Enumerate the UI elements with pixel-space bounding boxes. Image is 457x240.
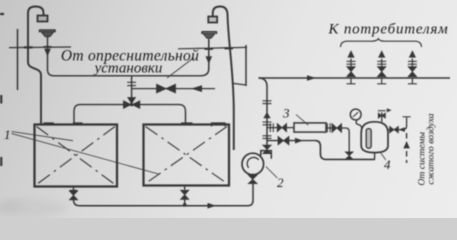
- label 2 leader: [266, 167, 278, 179]
- level gauge slot: [366, 129, 371, 149]
- funnel F1 top: [39, 30, 56, 32]
- consumer takeoff 1: [347, 50, 356, 84]
- tank 1 diagonals: [37, 127, 116, 185]
- valve before filter: [277, 123, 286, 131]
- funnel F1 bowl: [41, 32, 54, 37]
- border dash top-left: [0, 13, 4, 15]
- svg-text:К потребителям: К потребителям: [328, 22, 449, 38]
- tank bottom stub: [374, 153, 376, 160]
- ship side right foot: [233, 83, 246, 85]
- pump discharge riser: [259, 78, 268, 151]
- header right corner to F2: [201, 39, 209, 76]
- funnel F1 stem: [48, 37, 55, 76]
- tank 2: [144, 125, 230, 186]
- leader from caption to inlet: [167, 58, 194, 79]
- corner down after filter: [346, 128, 349, 152]
- edge artifact left lower: [0, 157, 2, 166]
- svg-text:установки: установки: [93, 61, 163, 77]
- air inlet connection: [388, 118, 407, 130]
- ship side right: [245, 45, 247, 86]
- valve tank2 outlet: [181, 190, 189, 199]
- distribution main: [259, 77, 451, 79]
- pressure tank T4: [361, 122, 388, 153]
- svg-text:сжатого воздуха: сжатого воздуха: [425, 113, 436, 184]
- flange tick at G1 stub: [44, 122, 55, 124]
- bypass corner down: [315, 141, 375, 160]
- flange ticks on tee drop: [127, 82, 136, 85]
- hatch on tank 2: [212, 123, 226, 127]
- deck tick on F1 stem: [44, 46, 52, 48]
- crossing tick at G1 pipe: [24, 46, 33, 48]
- inlet line from desalination unit: [132, 88, 215, 90]
- tank top fitting: [381, 112, 383, 122]
- flow arrow down F1: [44, 49, 51, 57]
- flow arrow up on riser: [263, 112, 270, 118]
- consumer takeoff 3: [408, 50, 417, 84]
- svg-text:2: 2: [277, 175, 284, 190]
- air inlet valve: [390, 126, 399, 133]
- flow arrow down F2: [206, 56, 213, 64]
- ship side left: [17, 29, 19, 90]
- svg-text:3: 3: [282, 106, 290, 121]
- flange tick at left riser: [73, 122, 83, 124]
- valve tank1 outlet: [69, 191, 77, 200]
- svg-text:4: 4: [384, 157, 391, 172]
- filter branch: [267, 127, 294, 129]
- tank top header: [80, 104, 179, 106]
- pipe jog G1 to tank 1: [28, 62, 41, 125]
- label 1 leaders: [12, 132, 159, 175]
- pump suction valve: [248, 175, 257, 184]
- header right corner: [179, 105, 186, 125]
- header left corner: [74, 105, 80, 125]
- pressure gauge: [350, 109, 361, 120]
- filter F3: [294, 123, 326, 132]
- tank 1: [35, 125, 118, 187]
- funnel F2 bowl: [203, 33, 215, 38]
- flow arrow up on air line: [403, 141, 410, 148]
- curve to bottom suction line: [74, 200, 80, 206]
- crossing tick at G2 pipe: [225, 47, 234, 49]
- vent gooseneck pipe G1: [28, 7, 44, 63]
- flange tick at right riser: [181, 122, 193, 124]
- deck line right: [178, 47, 247, 48]
- compressed air dashed line: [406, 133, 408, 163]
- tank 1 outlet: [73, 187, 75, 191]
- paper smudge bottom left: [0, 199, 68, 217]
- flow arrow left on air connection: [399, 127, 405, 132]
- bypass valve: [278, 136, 289, 145]
- bypass branch: [267, 140, 315, 142]
- flow arrow right on main: [307, 75, 316, 81]
- vent head box G2: [208, 17, 217, 23]
- tank 2 diagonals: [146, 127, 228, 184]
- fresh water header: [54, 75, 201, 77]
- svg-text:1: 1: [4, 127, 11, 142]
- label 3 leader: [296, 115, 308, 126]
- funnel F2 top: [202, 32, 218, 34]
- brace over takeoffs: [341, 39, 422, 47]
- valve after filter: [332, 124, 342, 133]
- flow arrow left on inlet: [191, 85, 202, 92]
- tee drop from header: [131, 76, 133, 100]
- tank 2 outlet: [184, 186, 186, 190]
- vent head box G1: [38, 16, 48, 22]
- deck line left: [9, 46, 71, 49]
- edge artifact left middle: [0, 95, 2, 104]
- junction dot: [183, 203, 187, 207]
- label 4 leader: [381, 153, 386, 161]
- flange ticks on riser: [263, 101, 272, 104]
- consumer takeoff 2: [377, 50, 386, 84]
- flow arrow right on suction line: [208, 203, 217, 209]
- pump P (circle with volute): [242, 153, 264, 175]
- valve V-inlet: [157, 84, 176, 93]
- vent gooseneck pipe G2: [213, 7, 234, 151]
- deck tick on F2 stem: [205, 48, 214, 50]
- bottom suction line: [79, 184, 253, 206]
- discharge valve: [263, 145, 272, 154]
- three-way valve: [123, 98, 139, 109]
- valve on filter drop: [345, 152, 353, 160]
- flow arrow right on bypass: [295, 138, 303, 144]
